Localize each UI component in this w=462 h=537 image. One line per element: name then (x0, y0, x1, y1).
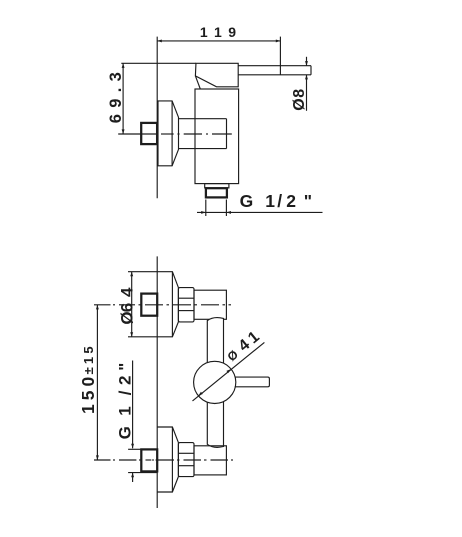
svg-text:69.3: 69.3 (107, 66, 125, 123)
svg-text:41: 41 (236, 328, 263, 355)
svg-text:Ø64: Ø64 (118, 287, 137, 325)
svg-text:±15: ±15 (81, 343, 96, 374)
svg-text:119: 119 (200, 24, 236, 40)
svg-text:G1/2": G1/2" (116, 363, 135, 440)
svg-text:Ø8: Ø8 (291, 88, 308, 110)
svg-text:G1/2": G1/2" (240, 191, 313, 211)
svg-text:Ø: Ø (225, 347, 241, 364)
svg-text:150: 150 (78, 373, 98, 414)
